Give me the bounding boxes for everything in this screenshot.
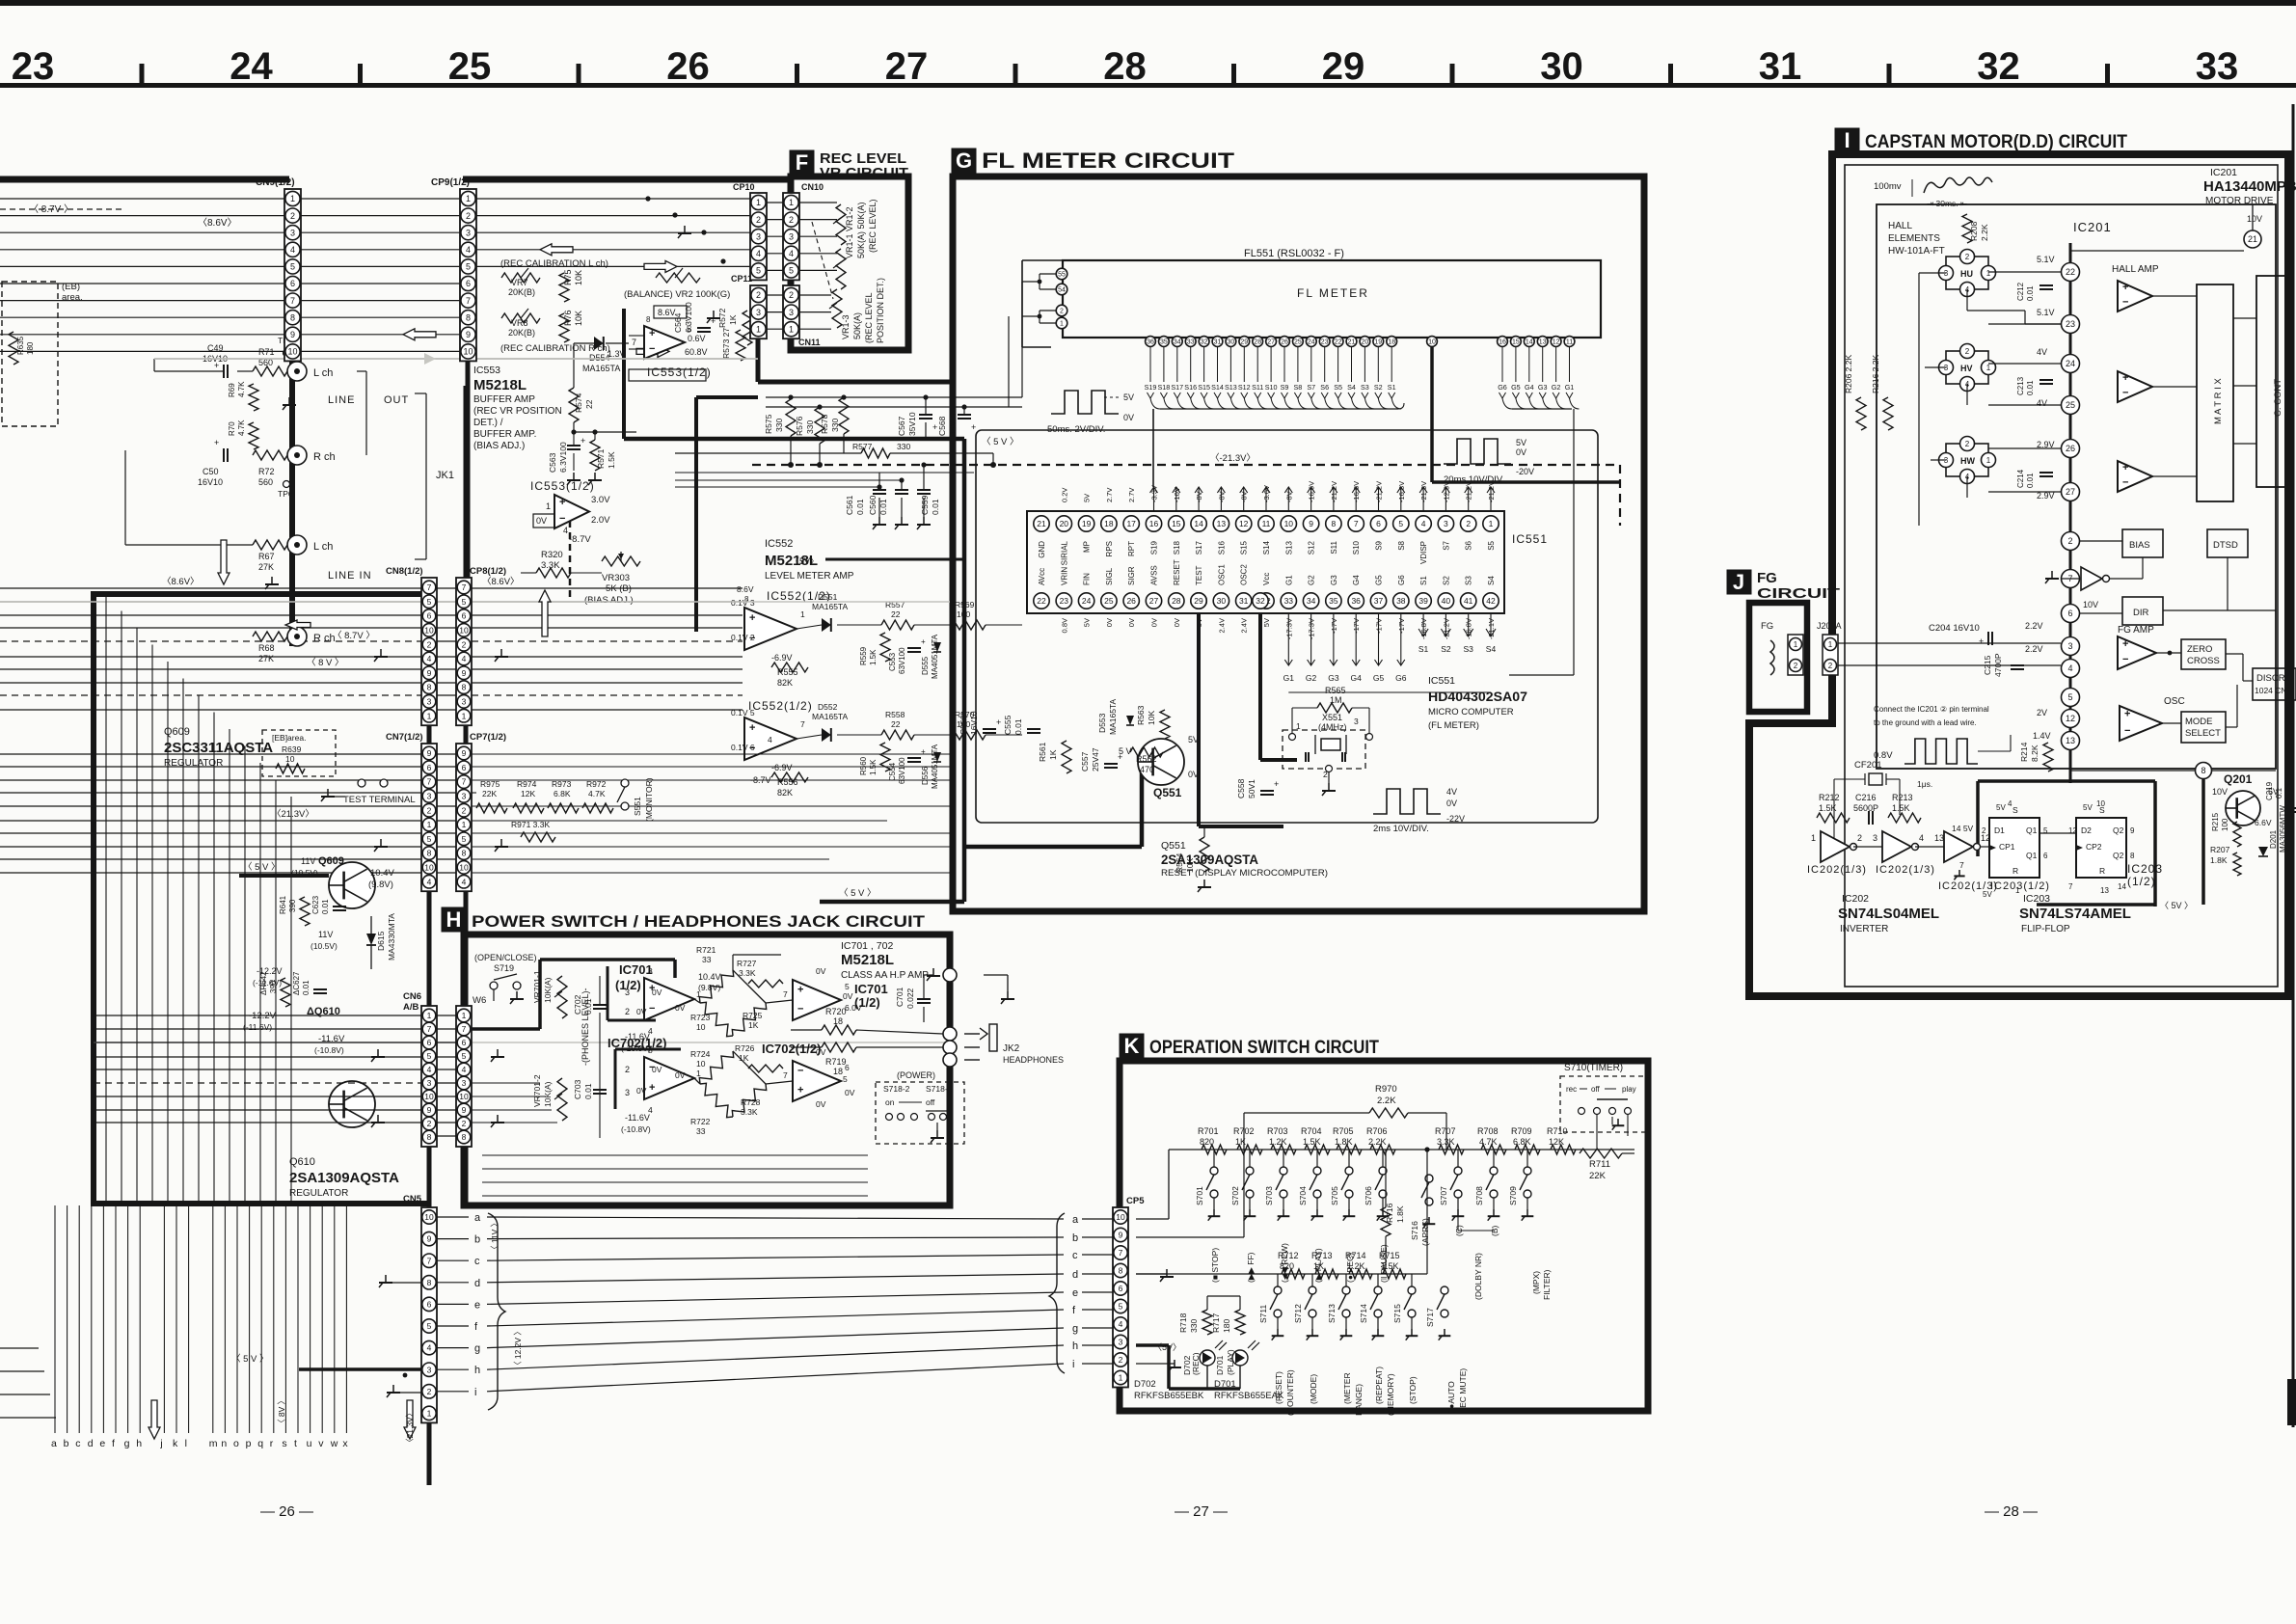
svg-text:〈 8.7V 〉: 〈 8.7V 〉 bbox=[333, 631, 375, 641]
svg-text:2: 2 bbox=[2067, 536, 2072, 546]
svg-text:60.8V: 60.8V bbox=[685, 347, 708, 357]
svg-text:CN5: CN5 bbox=[403, 1194, 422, 1204]
svg-text:−: − bbox=[2122, 297, 2128, 309]
svg-text:6: 6 bbox=[2043, 852, 2048, 860]
svg-text:0.01: 0.01 bbox=[583, 1083, 593, 1099]
svg-text:S710(TIMER): S710(TIMER) bbox=[1564, 1063, 1623, 1073]
svg-text:S716: S716 bbox=[1410, 1221, 1419, 1240]
svg-text:24: 24 bbox=[1308, 339, 1315, 346]
svg-text:1: 1 bbox=[427, 1011, 432, 1020]
svg-text:10: 10 bbox=[424, 1092, 434, 1101]
svg-text:3: 3 bbox=[756, 231, 761, 241]
svg-text:IC203(1/2): IC203(1/2) bbox=[1990, 880, 2050, 892]
svg-text:CN7(1/2): CN7(1/2) bbox=[386, 732, 423, 743]
svg-text:S12: S12 bbox=[1308, 540, 1316, 555]
svg-text:S: S bbox=[2012, 805, 2018, 815]
svg-text:20: 20 bbox=[1060, 519, 1069, 528]
H inner lower wires bbox=[482, 1154, 868, 1156]
svg-text:29: 29 bbox=[1240, 339, 1248, 346]
svg-text:0V: 0V bbox=[816, 966, 826, 976]
svg-text:3: 3 bbox=[789, 231, 794, 241]
svg-text:9: 9 bbox=[427, 1234, 432, 1244]
jack Rch out bbox=[287, 446, 307, 465]
flip-flop IC203b bbox=[2076, 818, 2126, 878]
svg-text:0V: 0V bbox=[1105, 618, 1114, 627]
svg-text:HU: HU bbox=[1960, 269, 1973, 279]
svg-text:2: 2 bbox=[1060, 309, 1064, 315]
svg-text:0V: 0V bbox=[1446, 798, 1457, 808]
svg-text:28: 28 bbox=[1172, 596, 1181, 606]
svg-text:b: b bbox=[1072, 1232, 1078, 1244]
svg-text:0.01: 0.01 bbox=[583, 998, 593, 1015]
svg-text:CN6: CN6 bbox=[403, 991, 421, 1002]
svg-text:g: g bbox=[124, 1438, 130, 1449]
svg-text:10: 10 bbox=[696, 1022, 706, 1032]
svg-text:1: 1 bbox=[1986, 269, 1991, 278]
svg-text:R573 27: R573 27 bbox=[721, 328, 731, 359]
svg-text:S18: S18 bbox=[1173, 540, 1181, 555]
svg-text:IC202(1/3): IC202(1/3) bbox=[1876, 864, 1935, 876]
svg-text:24: 24 bbox=[230, 45, 273, 88]
svg-text:(MEMORY): (MEMORY) bbox=[1386, 1373, 1395, 1416]
ground CN5 pin2 bbox=[392, 1385, 394, 1393]
svg-text:CP8(1/2): CP8(1/2) bbox=[470, 566, 506, 577]
svg-text:HEADPHONES: HEADPHONES bbox=[1003, 1055, 1064, 1065]
svg-text:R ch: R ch bbox=[313, 633, 336, 644]
svg-text:13: 13 bbox=[1934, 833, 1944, 843]
svg-text:3: 3 bbox=[625, 988, 630, 997]
svg-text:8: 8 bbox=[427, 683, 432, 692]
svg-text:1: 1 bbox=[462, 711, 467, 720]
svg-text:S15: S15 bbox=[1240, 540, 1249, 555]
svg-text:6: 6 bbox=[1376, 519, 1381, 528]
thick H wires bbox=[468, 1027, 540, 1031]
svg-text:(FL METER): (FL METER) bbox=[1428, 720, 1479, 731]
ground C563 bbox=[573, 473, 575, 480]
ground CN5 pin8 bbox=[385, 1275, 387, 1283]
svg-text:MP: MP bbox=[1083, 541, 1092, 553]
svg-text:30: 30 bbox=[1217, 596, 1227, 606]
svg-text:(▶▶ FF): (▶▶ FF) bbox=[1246, 1252, 1256, 1283]
svg-text:R705: R705 bbox=[1333, 1126, 1354, 1136]
svg-text:+: + bbox=[749, 722, 755, 734]
svg-text:R561: R561 bbox=[1038, 742, 1047, 762]
svg-text:R709: R709 bbox=[1511, 1126, 1532, 1136]
svg-text:G4: G4 bbox=[1525, 383, 1534, 392]
svg-text:-20V: -20V bbox=[1516, 467, 1534, 476]
svg-text:10: 10 bbox=[463, 347, 473, 357]
thick bus CP11 to G bbox=[756, 328, 761, 382]
svg-text:1: 1 bbox=[789, 324, 794, 334]
svg-text:R569: R569 bbox=[955, 600, 975, 609]
svg-text:1K: 1K bbox=[1235, 1137, 1246, 1147]
svg-text:G3: G3 bbox=[1328, 673, 1339, 683]
svg-text:FG: FG bbox=[1757, 570, 1777, 586]
svg-text:23: 23 bbox=[1060, 596, 1069, 606]
junction dots CP10 rows bbox=[645, 196, 650, 201]
svg-text:+: + bbox=[1979, 636, 1984, 646]
svg-text:(OPEN/CLOSE): (OPEN/CLOSE) bbox=[474, 953, 537, 962]
IC551 outline bbox=[1027, 511, 1504, 613]
IC201 bus pins bbox=[2062, 263, 2080, 282]
svg-text:0V: 0V bbox=[636, 1086, 647, 1096]
svg-text:S6: S6 bbox=[1320, 383, 1329, 392]
svg-text:22: 22 bbox=[1037, 596, 1046, 606]
svg-text:33: 33 bbox=[696, 1126, 706, 1136]
svg-text:−: − bbox=[2124, 725, 2130, 737]
svg-text:470: 470 bbox=[1140, 765, 1154, 774]
block K box bbox=[1120, 1061, 1648, 1411]
svg-text:Q2: Q2 bbox=[2113, 826, 2124, 835]
svg-text:MA165TA: MA165TA bbox=[1108, 699, 1118, 735]
svg-text:L ch: L ch bbox=[313, 367, 333, 379]
svg-text:C556: C556 bbox=[959, 715, 968, 735]
svg-text:R572: R572 bbox=[717, 308, 727, 328]
svg-text:C561: C561 bbox=[845, 495, 854, 515]
svg-text:v: v bbox=[318, 1438, 324, 1449]
svg-text:VR701-1: VR701-1 bbox=[532, 970, 542, 1003]
svg-text:G2: G2 bbox=[1306, 673, 1317, 683]
svg-text:h: h bbox=[474, 1365, 480, 1376]
svg-text:4.7K: 4.7K bbox=[588, 789, 606, 798]
svg-text:-6.9V: -6.9V bbox=[771, 763, 793, 772]
svg-text:CP1: CP1 bbox=[1999, 842, 2015, 852]
svg-text:CIRCUIT: CIRCUIT bbox=[1757, 585, 1840, 602]
svg-text:FIN: FIN bbox=[1083, 573, 1092, 585]
svg-text:5V: 5V bbox=[1123, 392, 1134, 402]
svg-text:a: a bbox=[51, 1438, 57, 1449]
svg-text:2: 2 bbox=[1794, 662, 1798, 670]
block J box bbox=[1749, 603, 1807, 712]
svg-text:100mv: 100mv bbox=[1874, 181, 1902, 192]
svg-text:2V: 2V bbox=[2037, 708, 2047, 717]
svg-text:S15: S15 bbox=[1198, 383, 1210, 392]
svg-text:(BIAS ADJ.): (BIAS ADJ.) bbox=[584, 595, 634, 606]
svg-text:(-11.6V): (-11.6V) bbox=[243, 1022, 272, 1032]
svg-text:8: 8 bbox=[466, 312, 471, 322]
svg-text:1: 1 bbox=[1794, 640, 1798, 649]
svg-text:(REC LEVEL: (REC LEVEL bbox=[864, 292, 874, 343]
thick J link bbox=[1749, 720, 1832, 727]
svg-text:1: 1 bbox=[462, 820, 467, 829]
svg-text:5: 5 bbox=[466, 262, 471, 272]
IC201 chip box bbox=[1877, 204, 2276, 769]
svg-text:C560: C560 bbox=[868, 495, 878, 515]
svg-text:〈 8V 〉: 〈 8V 〉 bbox=[277, 1396, 286, 1427]
svg-text:〈8.6V〉: 〈8.6V〉 bbox=[162, 577, 200, 587]
svg-text:5V: 5V bbox=[2083, 803, 2093, 812]
svg-text:SN74LS04MEL: SN74LS04MEL bbox=[1838, 906, 1939, 922]
FL METER box bbox=[1063, 260, 1601, 338]
svg-text:SIGL: SIGL bbox=[1105, 567, 1114, 585]
svg-text:C. CONT: C. CONT bbox=[2273, 379, 2283, 417]
svg-text:24: 24 bbox=[2066, 359, 2075, 368]
svg-text:S10: S10 bbox=[1352, 540, 1361, 555]
svg-text:14 5V: 14 5V bbox=[1952, 824, 1974, 833]
svg-text:22: 22 bbox=[891, 719, 901, 729]
svg-text:R715: R715 bbox=[1379, 1251, 1400, 1260]
svg-text:DTSD: DTSD bbox=[2213, 540, 2238, 551]
svg-text:7: 7 bbox=[462, 777, 467, 787]
switch S717 bbox=[1441, 1286, 1448, 1294]
svg-text:390: 390 bbox=[269, 980, 278, 993]
connector CP6 bbox=[456, 1006, 472, 1147]
svg-text:35V10: 35V10 bbox=[907, 412, 917, 436]
svg-text:MICRO COMPUTER: MICRO COMPUTER bbox=[1428, 707, 1514, 717]
svg-text:R973: R973 bbox=[552, 779, 572, 789]
svg-text:IC551: IC551 bbox=[1512, 532, 1548, 546]
svg-text:IC203: IC203 bbox=[2023, 893, 2050, 905]
svg-text:C702: C702 bbox=[573, 994, 582, 1015]
svg-text:S1: S1 bbox=[1388, 383, 1396, 392]
svg-text:31: 31 bbox=[1759, 45, 1802, 88]
svg-text:40: 40 bbox=[1442, 596, 1451, 606]
svg-text:off: off bbox=[1591, 1085, 1601, 1094]
svg-text:A/B: A/B bbox=[403, 1002, 419, 1013]
svg-text:— 28 —: — 28 — bbox=[1985, 1503, 2038, 1520]
svg-text:BUFFER AMP.: BUFFER AMP. bbox=[473, 429, 536, 440]
svg-text:〈 5V 〉: 〈 5V 〉 bbox=[2160, 901, 2193, 910]
svg-text:IC702(1/2): IC702(1/2) bbox=[762, 1042, 821, 1056]
svg-text:2: 2 bbox=[789, 290, 794, 300]
svg-text:R971 3.3K: R971 3.3K bbox=[511, 820, 550, 829]
wire staircase verticals bbox=[105, 594, 107, 1202]
svg-text:IC553(1/2): IC553(1/2) bbox=[647, 365, 712, 379]
svg-text:R ch: R ch bbox=[313, 451, 336, 463]
svg-text:10: 10 bbox=[1116, 1212, 1125, 1222]
resistor R208 bbox=[1962, 214, 1972, 243]
svg-text:S3: S3 bbox=[1463, 644, 1473, 654]
svg-text:5: 5 bbox=[1398, 519, 1403, 528]
svg-text:R641: R641 bbox=[279, 895, 287, 914]
svg-text:180: 180 bbox=[26, 341, 35, 355]
svg-text:3: 3 bbox=[290, 228, 295, 237]
svg-text:C553: C553 bbox=[888, 652, 897, 671]
svg-text:5: 5 bbox=[2067, 692, 2072, 702]
svg-text:R: R bbox=[2099, 866, 2105, 876]
svg-text:11: 11 bbox=[1262, 519, 1271, 528]
svg-text:9: 9 bbox=[427, 668, 432, 678]
svg-text:1: 1 bbox=[466, 194, 471, 203]
svg-text:6: 6 bbox=[427, 1038, 432, 1047]
svg-text:63V100: 63V100 bbox=[898, 647, 906, 674]
svg-text:7: 7 bbox=[427, 1024, 432, 1034]
wires into IC551 row1 bbox=[1153, 487, 1155, 511]
svg-text:1μs.: 1μs. bbox=[1917, 779, 1932, 789]
svg-text:INVERTER: INVERTER bbox=[1840, 924, 1888, 934]
svg-text:HA13440MPB: HA13440MPB bbox=[2203, 178, 2296, 195]
svg-text:S9: S9 bbox=[1375, 540, 1384, 550]
svg-text:S19: S19 bbox=[1145, 383, 1157, 392]
svg-text:R972: R972 bbox=[586, 779, 607, 789]
zero cross box bbox=[2181, 639, 2226, 669]
svg-text:(MONITOR): (MONITOR) bbox=[644, 777, 654, 822]
svg-text:23: 23 bbox=[12, 45, 55, 88]
svg-text:4: 4 bbox=[427, 654, 432, 663]
svg-text:OUT: OUT bbox=[384, 394, 409, 406]
svg-text:3: 3 bbox=[427, 696, 432, 706]
svg-text:8.6V: 8.6V bbox=[737, 584, 754, 594]
switch S718 bbox=[876, 1082, 964, 1144]
svg-text:I: I bbox=[1844, 128, 1850, 152]
svg-text:o: o bbox=[233, 1438, 239, 1449]
svg-text:2.7V: 2.7V bbox=[1105, 488, 1114, 502]
svg-text:9: 9 bbox=[462, 668, 467, 678]
svg-text:4: 4 bbox=[427, 877, 432, 886]
wire K bus row2 bbox=[1136, 1273, 1169, 1275]
block I box bbox=[1749, 154, 2288, 996]
svg-text:R710: R710 bbox=[1547, 1126, 1568, 1136]
svg-text:3: 3 bbox=[466, 228, 471, 237]
svg-text:c: c bbox=[474, 1256, 480, 1267]
svg-text:(REC LEVEL): (REC LEVEL) bbox=[868, 199, 878, 253]
switch S705 bbox=[1345, 1167, 1353, 1175]
block H header bbox=[442, 907, 466, 932]
svg-text:42: 42 bbox=[1486, 596, 1496, 606]
svg-text:1: 1 bbox=[427, 1408, 432, 1418]
svg-text:CN9(1/2): CN9(1/2) bbox=[256, 177, 295, 188]
connector bus CN side bbox=[427, 580, 432, 1485]
svg-text:(DOLBY NR): (DOLBY NR) bbox=[1473, 1253, 1483, 1300]
svg-text:0.01: 0.01 bbox=[931, 499, 940, 515]
svg-text:9: 9 bbox=[1119, 1231, 1123, 1240]
svg-text:7: 7 bbox=[1354, 519, 1359, 528]
switch S712 bbox=[1309, 1286, 1316, 1294]
svg-text:R703: R703 bbox=[1267, 1126, 1288, 1136]
svg-text:+: + bbox=[581, 436, 585, 446]
svg-text:LINE IN: LINE IN bbox=[328, 570, 372, 582]
svg-text:DISCRI: DISCRI bbox=[2256, 673, 2287, 684]
svg-text:18: 18 bbox=[1388, 339, 1395, 346]
svg-text:−: − bbox=[2122, 654, 2128, 665]
svg-text:6: 6 bbox=[462, 1038, 467, 1047]
svg-text:S1: S1 bbox=[1419, 576, 1428, 585]
svg-text:t: t bbox=[294, 1438, 297, 1449]
svg-text:10.4V: 10.4V bbox=[370, 868, 394, 879]
svg-text:FL METER: FL METER bbox=[1297, 286, 1369, 300]
svg-text:G3: G3 bbox=[1330, 575, 1338, 585]
pin 8 wire bbox=[2196, 763, 2212, 779]
svg-text:35: 35 bbox=[1160, 339, 1168, 346]
svg-text:(BIAS ADJ.): (BIAS ADJ.) bbox=[473, 441, 525, 451]
svg-text:IC552: IC552 bbox=[765, 538, 793, 550]
inverter IC202b bbox=[1882, 831, 1911, 862]
svg-text:26: 26 bbox=[666, 45, 710, 88]
svg-text:R970: R970 bbox=[1375, 1084, 1397, 1095]
svg-text:14: 14 bbox=[1526, 339, 1533, 346]
op-amp hallamp1 bbox=[2118, 281, 2152, 311]
svg-text:(MPX): (MPX) bbox=[1531, 1271, 1541, 1294]
svg-text:REC MUTE): REC MUTE) bbox=[1458, 1368, 1468, 1414]
svg-text:12K: 12K bbox=[521, 789, 535, 798]
svg-text:(-10.8V): (-10.8V) bbox=[314, 1045, 344, 1055]
svg-text:6: 6 bbox=[2067, 609, 2072, 618]
svg-text:S3: S3 bbox=[1465, 576, 1473, 585]
svg-text:CN11: CN11 bbox=[798, 338, 821, 347]
svg-text:IC702(1/2): IC702(1/2) bbox=[608, 1036, 666, 1050]
svg-text:12: 12 bbox=[2066, 714, 2075, 723]
svg-text:DIR: DIR bbox=[2133, 608, 2149, 618]
svg-text:〈 5 V 〉: 〈 5 V 〉 bbox=[982, 437, 1019, 447]
svg-text:J201A: J201A bbox=[1817, 621, 1842, 631]
svg-text:+: + bbox=[2122, 372, 2128, 384]
svg-text:VR303: VR303 bbox=[602, 573, 630, 583]
svg-text:(REC CALIBRATION L ch): (REC CALIBRATION L ch) bbox=[500, 258, 608, 269]
svg-text:1: 1 bbox=[427, 820, 432, 829]
svg-text:CAPSTAN MOTOR(D.D) CIRCUIT: CAPSTAN MOTOR(D.D) CIRCUIT bbox=[1865, 132, 2127, 152]
svg-text:15: 15 bbox=[1512, 339, 1520, 346]
svg-text:22K: 22K bbox=[482, 789, 497, 798]
svg-text:D553: D553 bbox=[1097, 713, 1107, 733]
svg-text:2: 2 bbox=[1982, 826, 1986, 835]
svg-text:-11.6V: -11.6V bbox=[625, 1113, 650, 1123]
svg-text:R216 2.2K: R216 2.2K bbox=[1871, 355, 1880, 393]
svg-text:5: 5 bbox=[687, 324, 691, 334]
waveform 20ms bbox=[1444, 439, 1511, 464]
svg-text:1K: 1K bbox=[739, 1053, 749, 1063]
svg-text:22K: 22K bbox=[1589, 1171, 1607, 1181]
svg-text:7: 7 bbox=[462, 1024, 467, 1034]
svg-text:MA165TA: MA165TA bbox=[812, 712, 848, 721]
wire bus CN7 rows bbox=[0, 753, 421, 755]
svg-text:1: 1 bbox=[462, 1011, 467, 1020]
svg-text:C563: C563 bbox=[548, 452, 557, 473]
svg-text:C568: C568 bbox=[937, 416, 947, 436]
svg-text:0V: 0V bbox=[636, 1007, 647, 1016]
svg-text:SN74LS74AMEL: SN74LS74AMEL bbox=[2019, 906, 2131, 922]
svg-text:29: 29 bbox=[1322, 45, 1365, 88]
svg-text:play: play bbox=[1622, 1085, 1636, 1094]
svg-text:7: 7 bbox=[427, 777, 432, 787]
svg-text:(MODE): (MODE) bbox=[1309, 1374, 1318, 1404]
op-amp IC701b bbox=[793, 980, 841, 1020]
hollow arrow bottom 2 bbox=[404, 1400, 416, 1439]
svg-text:21: 21 bbox=[1037, 519, 1046, 528]
svg-text:2SA1309AQSTA: 2SA1309AQSTA bbox=[289, 1170, 399, 1186]
svg-text:W6: W6 bbox=[473, 995, 486, 1006]
svg-text:(REC): (REC) bbox=[1191, 1352, 1201, 1375]
svg-text:CP11: CP11 bbox=[731, 274, 752, 284]
svg-text:12: 12 bbox=[2068, 826, 2077, 835]
svg-text:S718-1: S718-1 bbox=[926, 1084, 953, 1094]
svg-text:S705: S705 bbox=[1330, 1186, 1339, 1205]
IC551 pin circles bbox=[1034, 516, 1049, 531]
svg-text:ELEMENTS: ELEMENTS bbox=[1888, 233, 1940, 244]
svg-text:G5: G5 bbox=[1373, 673, 1385, 683]
svg-text:R67: R67 bbox=[258, 552, 275, 561]
svg-text:9: 9 bbox=[2130, 826, 2135, 835]
svg-text:2: 2 bbox=[1965, 440, 1970, 448]
svg-text:S551: S551 bbox=[633, 797, 642, 816]
svg-text:10K: 10K bbox=[1147, 711, 1156, 725]
svg-text:30: 30 bbox=[1228, 339, 1235, 346]
svg-text:+: + bbox=[649, 1082, 655, 1094]
svg-text:5: 5 bbox=[427, 1321, 432, 1331]
svg-text:IC551: IC551 bbox=[1428, 675, 1455, 687]
svg-text:Q1: Q1 bbox=[2026, 826, 2038, 835]
svg-text:CROSS: CROSS bbox=[2187, 656, 2220, 666]
svg-text:R578: R578 bbox=[820, 414, 829, 434]
svg-text:+: + bbox=[921, 637, 926, 646]
svg-text:R975: R975 bbox=[480, 779, 500, 789]
svg-text:5V: 5V bbox=[1996, 803, 2006, 812]
svg-text:33: 33 bbox=[1284, 596, 1294, 606]
svg-text:d: d bbox=[474, 1278, 480, 1289]
inverter IC202c bbox=[1944, 831, 1973, 862]
svg-text:15: 15 bbox=[1172, 519, 1181, 528]
svg-text:0.01: 0.01 bbox=[878, 499, 888, 515]
svg-text:(-10.8V): (-10.8V) bbox=[621, 1124, 651, 1134]
